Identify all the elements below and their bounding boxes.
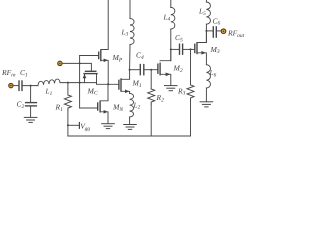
svg-text:L2: L2 xyxy=(133,100,141,110)
port RFin xyxy=(9,83,13,87)
node C2 junction xyxy=(30,85,32,87)
svg-text:C2: C2 xyxy=(17,100,25,110)
svg-text:L3: L3 xyxy=(121,27,129,37)
ground L2 xyxy=(124,125,137,130)
main line step at MC drain xyxy=(97,83,119,85)
wire L6 to ground xyxy=(205,88,207,102)
ground MN xyxy=(102,124,115,129)
bottom rail xyxy=(68,135,191,137)
resistor R2 xyxy=(148,70,155,136)
node C4 xyxy=(129,69,131,71)
svg-text:L6: L6 xyxy=(209,68,217,78)
Vgg tap xyxy=(67,123,80,129)
port bias xyxy=(58,61,62,65)
svg-text:R2: R2 xyxy=(156,93,165,103)
capacitor C5 xyxy=(171,44,195,54)
wire rail to MN gate xyxy=(80,107,98,109)
node rail-main xyxy=(79,82,81,84)
wire L5 to M3 drain xyxy=(205,24,207,42)
transistor MN xyxy=(98,84,108,123)
wire port to C1 xyxy=(13,85,19,87)
svg-text:RFin: RFin xyxy=(1,68,16,78)
node MP/MN on main line xyxy=(107,83,109,85)
svg-text:C1: C1 xyxy=(20,68,28,78)
svg-text:MN: MN xyxy=(112,103,123,113)
node R1 xyxy=(67,82,69,84)
svg-text:L1: L1 xyxy=(45,87,53,97)
wire rail vertical xyxy=(79,56,81,109)
wire L5 top xyxy=(205,0,207,2)
wire L1 to MC drain xyxy=(60,82,97,84)
svg-text:R3: R3 xyxy=(177,86,186,96)
inductor L6 xyxy=(206,65,210,88)
svg-text:M2: M2 xyxy=(173,64,183,74)
svg-text:C6: C6 xyxy=(213,16,221,26)
wire rail top to MP gate xyxy=(80,55,99,57)
capacitor C4 xyxy=(130,65,158,75)
inductor L1 (slanted: enters 85.6 exits 82.6) xyxy=(38,79,60,86)
svg-text:RFout: RFout xyxy=(227,29,245,39)
svg-text:MP: MP xyxy=(112,53,123,63)
inductor L4 xyxy=(171,7,175,29)
capacitor C2 xyxy=(26,86,37,118)
capacitor C6 xyxy=(206,27,221,37)
resistor R3 xyxy=(187,49,194,136)
node R3 xyxy=(190,48,192,50)
wire L4 top xyxy=(170,0,172,7)
node R2 xyxy=(150,69,152,71)
svg-text:M3: M3 xyxy=(210,45,220,55)
svg-text:R1: R1 xyxy=(55,103,64,113)
svg-text:L4: L4 xyxy=(163,12,171,22)
transistor M2 xyxy=(158,49,171,85)
port RFout xyxy=(221,29,226,34)
inductor L3 xyxy=(130,19,134,45)
wire L2 to ground xyxy=(129,117,131,124)
capacitor C1 xyxy=(19,81,22,90)
node C6 xyxy=(205,30,207,32)
transistor M3 xyxy=(195,31,207,65)
wire C1 to L1 xyxy=(22,85,38,87)
transistor M1 xyxy=(119,70,130,94)
wire L3 top xyxy=(129,0,131,19)
transistor MP xyxy=(99,0,109,84)
node C5 xyxy=(170,48,172,50)
node bias rail xyxy=(79,62,81,64)
svg-text:L5: L5 xyxy=(198,7,206,17)
transistor MC (rotated, gate on top) xyxy=(83,71,97,82)
resistor R1 xyxy=(64,83,71,136)
svg-text:C4: C4 xyxy=(136,51,144,61)
ground C2 xyxy=(24,117,37,122)
svg-text:C5: C5 xyxy=(175,33,183,43)
ground M2 xyxy=(165,86,178,91)
svg-text:Vgg: Vgg xyxy=(80,122,90,131)
ground L6 xyxy=(200,102,213,107)
wire L3 to C4 node xyxy=(129,45,131,70)
inductor L5 xyxy=(206,2,210,24)
wire L4 to M2 drain xyxy=(170,29,172,61)
inductor L2 xyxy=(130,93,134,117)
svg-text:M1: M1 xyxy=(132,79,142,89)
wire bias port to rail to MC gate feed xyxy=(62,63,91,71)
svg-text:MC: MC xyxy=(87,86,98,96)
